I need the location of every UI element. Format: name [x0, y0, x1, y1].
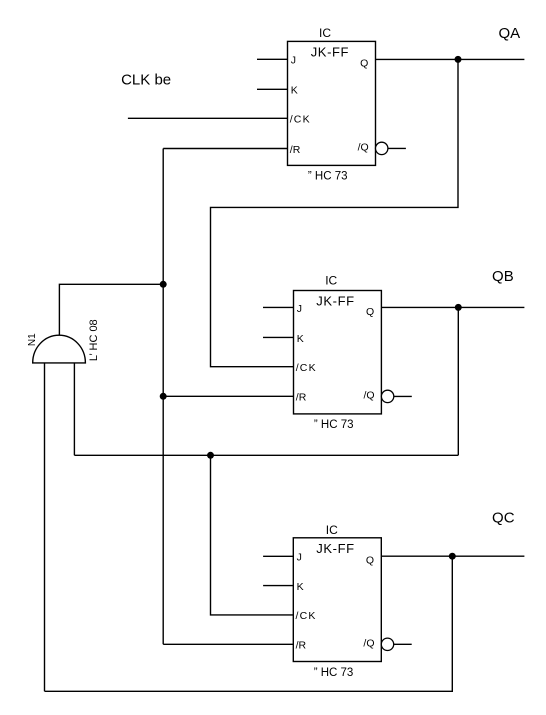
- svg-text:JK-FF: JK-FF: [316, 294, 354, 309]
- svg-text:/Q: /Q: [358, 141, 369, 153]
- svg-text:CLK be: CLK be: [121, 72, 171, 89]
- svg-text:J: J: [291, 55, 296, 67]
- svg-text:L’ HC 08: L’ HC 08: [88, 319, 100, 361]
- svg-text:QA: QA: [498, 25, 520, 42]
- svg-text:J: J: [297, 303, 302, 315]
- svg-text:Q: Q: [366, 555, 374, 567]
- svg-text:IC: IC: [326, 523, 338, 537]
- svg-text:K: K: [297, 581, 304, 593]
- svg-text:/Q: /Q: [364, 389, 375, 401]
- svg-text:/CK: /CK: [290, 114, 311, 126]
- svg-text:IC: IC: [325, 274, 337, 288]
- svg-text:JK-FF: JK-FF: [316, 541, 354, 556]
- svg-text:/R: /R: [296, 640, 307, 652]
- svg-text:K: K: [291, 85, 298, 97]
- svg-text:K: K: [297, 333, 304, 345]
- svg-text:QC: QC: [492, 510, 515, 527]
- svg-text:QB: QB: [492, 268, 514, 285]
- svg-text:/CK: /CK: [296, 362, 317, 374]
- svg-text:/R: /R: [290, 144, 301, 156]
- svg-text:IC: IC: [319, 26, 331, 40]
- svg-text:Q: Q: [366, 306, 374, 318]
- svg-text:J: J: [297, 552, 302, 564]
- svg-text:” HC 73: ” HC 73: [308, 171, 348, 183]
- svg-text:/Q: /Q: [363, 637, 374, 649]
- svg-text:N1: N1: [27, 333, 38, 346]
- svg-text:/CK: /CK: [296, 610, 317, 622]
- svg-text:JK-FF: JK-FF: [311, 45, 349, 60]
- svg-text:Q: Q: [360, 58, 368, 70]
- svg-text:” HC 73: ” HC 73: [314, 419, 354, 431]
- svg-text:” HC 73: ” HC 73: [314, 667, 354, 679]
- svg-text:/R: /R: [296, 392, 307, 404]
